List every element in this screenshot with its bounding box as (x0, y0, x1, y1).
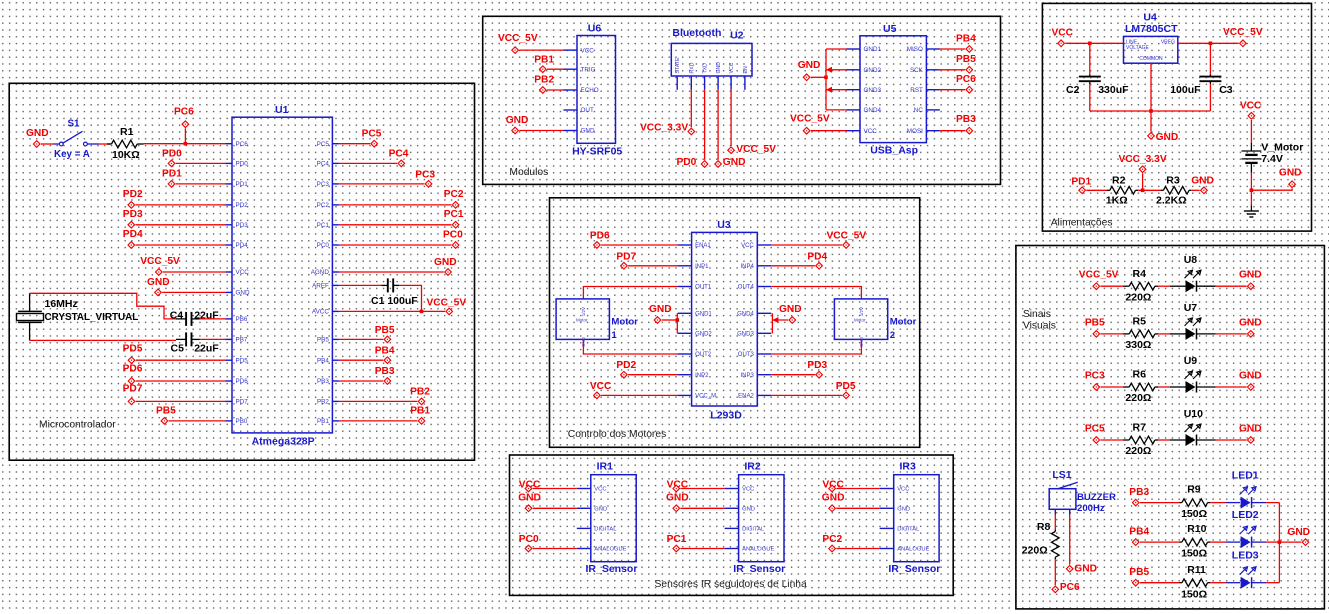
svg-text:2: 2 (890, 330, 895, 341)
svg-text:GND: GND (1279, 168, 1302, 179)
svg-text:PC6: PC6 (956, 74, 976, 85)
svg-text:VCC: VCC (594, 487, 606, 493)
svg-text:GND: GND (666, 492, 689, 503)
node PC3 (LED row U9) (1085, 371, 1105, 391)
wire GND bracket left U3 (662, 313, 679, 333)
svg-text:PB5: PB5 (375, 325, 395, 336)
wire PC0 to IR1 (533, 548, 577, 550)
svg-text:VOLTAGE: VOLTAGE (1126, 45, 1150, 51)
svg-text:IR1: IR1 (597, 460, 614, 472)
node GND (battery -) (1279, 168, 1302, 188)
wire AREF C1 to VCC_5V corner (399, 285, 422, 311)
svg-text:PB5: PB5 (1129, 567, 1149, 578)
svg-text:VCC: VCC (236, 269, 250, 276)
LED LED1 (blue) (1232, 470, 1259, 509)
svg-text:U10: U10 (1184, 408, 1203, 420)
svg-text:VCC_5V: VCC_5V (827, 230, 867, 241)
wire PC6 to U1.PC6 with R1 net (144, 128, 226, 145)
svg-text:PD3: PD3 (807, 360, 827, 371)
svg-text:U1: U1 (275, 104, 289, 116)
svg-text:IR3: IR3 (900, 460, 917, 472)
wire GND AGND to U1 (339, 271, 444, 273)
svg-text:U6: U6 (588, 22, 602, 34)
svg-text:PC0: PC0 (519, 534, 539, 545)
node PB1 (flag) (534, 55, 554, 73)
svg-text:PB1: PB1 (317, 418, 329, 425)
svg-text:Key = A: Key = A (54, 149, 90, 160)
node PC1 (flag) (444, 209, 464, 228)
node GND (U10) (1239, 424, 1262, 444)
svg-text:V_Motor: V_Motor (1261, 141, 1303, 153)
LED LED2 (blue) (1232, 509, 1259, 548)
svg-text:PD3: PD3 (123, 209, 143, 220)
wire PD5 to U1.PD5 (136, 359, 226, 361)
capacitor C3 100uF (1170, 43, 1233, 111)
svg-text:DIGITAL: DIGITAL (594, 527, 617, 533)
svg-text:GND: GND (1239, 424, 1262, 435)
wire R8 to PC6 (1054, 559, 1056, 585)
svg-text:1: 1 (611, 330, 617, 341)
node PD7 (U3.INP1) (616, 251, 636, 269)
motor M1 Motor 1 (556, 299, 638, 347)
svg-text:VCC_5V: VCC_5V (736, 144, 776, 155)
svg-text:PD5: PD5 (123, 344, 143, 355)
svg-text:22uF: 22uF (194, 310, 219, 322)
svg-text:R2: R2 (1112, 175, 1126, 187)
svg-text:AREF: AREF (312, 283, 329, 290)
ground symbol (battery) (1244, 206, 1259, 218)
svg-text:Microcontrolador: Microcontrolador (39, 420, 116, 431)
resistor R4 220Ω (1123, 268, 1158, 304)
svg-text:100uF: 100uF (1170, 84, 1201, 96)
wire VCC to U3.VCC_M (601, 394, 678, 396)
svg-text:MISO: MISO (907, 46, 923, 53)
wire battery- to GND flag (1251, 188, 1292, 190)
svg-text:VCC_5V: VCC_5V (1223, 27, 1263, 38)
wire PD6 to U3.ENA1 (601, 244, 678, 246)
LED U8 (1184, 254, 1201, 292)
svg-text:16MHz: 16MHz (45, 298, 78, 310)
resistor R6 220Ω (1123, 369, 1158, 405)
node PB4 (U5.MISO) (956, 33, 976, 52)
regulator U4 LM7805CT (1124, 11, 1179, 63)
node PB1 (flag) (410, 405, 430, 424)
svg-text:TRIG: TRIG (581, 66, 596, 73)
wire U3.OUT4 to Motor2 (771, 287, 861, 299)
svg-text:PD4: PD4 (807, 251, 827, 262)
svg-text:PC6: PC6 (174, 107, 194, 118)
wire PD1 to R2 (1086, 189, 1107, 191)
node VCC_5V (U4 output) (1223, 27, 1263, 47)
svg-text:USB_Asp: USB_Asp (870, 144, 918, 156)
svg-text:PC5: PC5 (1085, 424, 1105, 435)
svg-text:GND: GND (1239, 270, 1262, 281)
svg-text:150Ω: 150Ω (1181, 508, 1207, 520)
svg-text:PD6: PD6 (123, 364, 143, 375)
svg-text:220Ω: 220Ω (1125, 291, 1151, 303)
wire LED U10 to GND (1197, 439, 1247, 441)
wire battery to ground (1250, 173, 1254, 206)
svg-text:GND: GND (649, 304, 672, 315)
wire PC0 to U1 (339, 244, 452, 246)
svg-text:C1 100uF: C1 100uF (371, 295, 418, 307)
svg-text:PC2: PC2 (444, 189, 464, 200)
node PB5 (U5.SCK) (956, 54, 976, 73)
node PC5 (flag) (362, 129, 382, 148)
node PC2 (flag) (444, 189, 464, 208)
svg-text:1/2V: 1/2V (581, 307, 586, 316)
svg-text:Bluetooth: Bluetooth (672, 27, 721, 39)
buzzer LS1 BUZZER 200Hz (1049, 469, 1116, 515)
capacitor C4 22uF (170, 310, 220, 326)
svg-text:GND3: GND3 (737, 332, 754, 338)
svg-text:VCC: VCC (864, 128, 878, 135)
node PD6 (flag) (123, 364, 143, 385)
node PD1 (flag) (162, 169, 182, 188)
svg-text:GND: GND (1156, 132, 1179, 143)
svg-text:220Ω: 220Ω (1125, 445, 1151, 457)
wire PB3 to R9 (1140, 502, 1180, 504)
svg-text:PC5: PC5 (362, 129, 382, 140)
node PC6 (flag) (174, 107, 194, 128)
svg-text:PC6: PC6 (236, 141, 249, 148)
svg-text:R10: R10 (1187, 523, 1206, 535)
resistor R2 1KOhm (1106, 175, 1138, 207)
wire R9 to LED1 (1210, 502, 1240, 504)
svg-text:Motor: Motor (611, 317, 638, 328)
LED U10 (1184, 408, 1203, 446)
section box Sensores IR (510, 455, 954, 595)
svg-text:ENA2: ENA2 (738, 394, 754, 400)
svg-text:GND: GND (434, 257, 457, 268)
wire GND to U6.GND (519, 130, 563, 132)
svg-text:VCC_5V: VCC_5V (427, 297, 467, 308)
svg-text:R5: R5 (1133, 316, 1147, 328)
svg-text:C3: C3 (1219, 84, 1233, 96)
svg-text:GND: GND (1239, 371, 1262, 382)
svg-text:ECHO: ECHO (581, 87, 599, 94)
wire VCC to IR2 (681, 488, 725, 490)
node VCC (U3.VCC_M) (590, 381, 612, 399)
wire VCC to U4 input (1065, 42, 1123, 46)
svg-text:GND3: GND3 (864, 87, 882, 94)
IR sensor IR2 IR_Sensor (725, 460, 786, 575)
wire LED3 out (1252, 582, 1279, 584)
svg-text:R4: R4 (1133, 268, 1147, 280)
capacitor C1 100uF on AREF (339, 278, 418, 307)
svg-text:GND: GND (1074, 563, 1097, 574)
wire R2-R3 junction to VCC_3.3V (1138, 173, 1161, 192)
node GND (LED rail) (1287, 527, 1310, 546)
wire PD7 to U1.PD7 (136, 400, 226, 402)
svg-text:INP1: INP1 (695, 264, 709, 270)
wire U3.INP4 to PD4 (771, 265, 815, 267)
node PD5 (flag) (123, 344, 143, 364)
svg-text:GND: GND (506, 115, 529, 126)
svg-text:PB7: PB7 (236, 337, 248, 344)
wire PB2 to U1 (339, 400, 417, 402)
svg-text:VCC: VCC (1240, 101, 1262, 112)
svg-text:ANALOGUE: ANALOGUE (742, 547, 774, 553)
svg-text:GND2: GND2 (864, 67, 882, 74)
resistor R10 150Ohm (1180, 523, 1211, 560)
svg-text:PC1: PC1 (317, 222, 330, 229)
wire VCC_5V to R4 (1101, 285, 1124, 287)
svg-text:PC3: PC3 (317, 181, 330, 188)
node PD2 (U3.INP2) (616, 360, 636, 378)
svg-text:PD6: PD6 (590, 230, 610, 241)
svg-text:PD2: PD2 (616, 360, 636, 371)
svg-text:PB5: PB5 (156, 406, 176, 417)
svg-text:INP4: INP4 (740, 264, 754, 270)
node VCC (battery +) (1240, 101, 1262, 120)
resistor R3 2.2KOhm (1156, 175, 1191, 207)
svg-text:PD0: PD0 (162, 149, 182, 160)
svg-text:GND1: GND1 (864, 46, 882, 53)
svg-text:PB0: PB0 (236, 418, 248, 425)
svg-text:PD5: PD5 (836, 381, 856, 392)
svg-text:PB5: PB5 (956, 54, 976, 65)
wire Motor2 to U3.OUT3 (771, 339, 861, 354)
svg-text:Modulos: Modulos (509, 167, 548, 178)
node PD0 (U2.TXD) (677, 157, 708, 168)
node PC0 (flag) (443, 230, 463, 249)
node GND (U3 GND1/GND2) (649, 304, 672, 324)
svg-text:PC0: PC0 (317, 242, 330, 249)
svg-text:LM7805CT: LM7805CT (1125, 23, 1178, 35)
svg-text:GND1: GND1 (695, 312, 712, 318)
node GND (U3 GND4/GND3) (779, 304, 802, 324)
svg-text:GND: GND (518, 492, 541, 503)
wire U2.RXD down (690, 90, 692, 128)
wire PC5 to R7 (1101, 439, 1124, 441)
wire GND to IR2 (681, 507, 725, 509)
svg-text:PB2: PB2 (534, 75, 554, 86)
svg-text:ENA1: ENA1 (695, 243, 711, 249)
wire PB1 to U6.TRIG (547, 68, 564, 70)
svg-text:22uF: 22uF (194, 343, 219, 355)
svg-text:PB4: PB4 (1129, 526, 1149, 537)
switch S1 Key = A (54, 119, 99, 161)
svg-text:GND: GND (742, 507, 755, 513)
wire R10 to LED2 (1210, 541, 1240, 543)
svg-text:PB2: PB2 (410, 387, 430, 398)
svg-text:GND: GND (1191, 176, 1214, 187)
wire PC1 to IR2 (681, 548, 725, 550)
svg-text:VCC_5V: VCC_5V (498, 33, 538, 44)
svg-text:PC3: PC3 (415, 169, 435, 180)
wire R6 to LED U9 (1158, 386, 1186, 388)
wire LS1 left lead to R8 (1054, 515, 1056, 530)
svg-text:220Ω: 220Ω (1022, 545, 1048, 557)
svg-text:VCC: VCC (590, 381, 612, 392)
svg-text:PC5: PC5 (317, 141, 330, 148)
wire PD6 to U1.PD6 (136, 380, 226, 382)
svg-text:Motor: Motor (854, 318, 866, 323)
svg-text:PB3: PB3 (956, 114, 976, 125)
node PB4 (flag) (375, 346, 395, 364)
wire U5.MOSI to PB3 (940, 130, 965, 132)
svg-text:LED3: LED3 (1232, 550, 1259, 562)
svg-text:STATE: STATE (675, 57, 681, 73)
svg-text:PC1: PC1 (667, 534, 687, 545)
svg-text:U9: U9 (1184, 355, 1198, 367)
node PD4 (U3.INP4) (807, 251, 827, 269)
ultrasonic module U6 HY-SRF05 (564, 22, 623, 157)
svg-text:GND: GND (26, 128, 49, 139)
svg-text:GND4: GND4 (737, 312, 754, 318)
svg-text:OUT2: OUT2 (695, 352, 712, 358)
svg-text:INP2: INP2 (695, 373, 709, 379)
wire PC2 to U1 (339, 204, 452, 206)
svg-text:GND: GND (581, 128, 595, 135)
svg-text:GND: GND (1287, 527, 1310, 538)
svg-text:U2: U2 (730, 30, 744, 42)
svg-text:PD1: PD1 (1071, 176, 1091, 187)
wire R5 to LED U7 (1158, 333, 1186, 335)
svg-text:PB4: PB4 (956, 33, 976, 44)
capacitor C5 22uF (171, 332, 220, 354)
capacitor C2 330uF (1066, 43, 1129, 111)
node GND (U9) (1239, 371, 1262, 391)
svg-text:PC2: PC2 (317, 202, 330, 209)
svg-text:MOSI: MOSI (907, 128, 923, 135)
node PB3 (flag) (375, 366, 395, 384)
svg-text:220Ω: 220Ω (1125, 392, 1151, 404)
wire PD2 to U1.PD2 (136, 204, 226, 206)
wire U2.GND down (717, 90, 719, 160)
svg-text:2.2KΩ: 2.2KΩ (1156, 195, 1187, 207)
node PD5 (U3.ENA2) (836, 381, 856, 399)
node GND (U5 GND bus) (798, 60, 821, 80)
svg-text:U7: U7 (1184, 302, 1198, 314)
wire C5 to U1.PB7 (200, 338, 226, 340)
svg-text:VCC: VCC (729, 62, 735, 73)
svg-text:PD0: PD0 (236, 161, 249, 168)
node GND (IR1.GND) (518, 492, 541, 511)
svg-text:PB1: PB1 (534, 55, 554, 66)
node PB3 (U5.MOSI) (956, 114, 976, 134)
svg-text:GND4: GND4 (864, 107, 882, 114)
wire PC1 to U1 (339, 224, 452, 226)
svg-text:GND: GND (236, 290, 250, 297)
svg-text:PB3: PB3 (375, 366, 395, 377)
node VCC (IR1.VCC) (519, 480, 541, 492)
svg-text:PD2: PD2 (123, 189, 143, 200)
wire GND to U1.GND (162, 291, 225, 293)
svg-text:150Ω: 150Ω (1181, 548, 1207, 560)
svg-text:CRYSTAL_VIRTUAL: CRYSTAL_VIRTUAL (45, 312, 139, 323)
node VCC (IR2.VCC) (667, 480, 689, 492)
svg-text:GND: GND (723, 157, 746, 168)
node GND (R3) (1191, 176, 1214, 194)
svg-text:VCC_M: VCC_M (695, 394, 716, 400)
node PD6 (U3.ENA1) (590, 230, 610, 248)
svg-text:S1: S1 (68, 119, 81, 130)
node PD4 (flag) (123, 229, 143, 248)
svg-text:VCC: VCC (897, 487, 909, 493)
section box Alimentacoes (1042, 3, 1311, 231)
wire C4 to U1.PB6 (200, 318, 226, 320)
wire VCC_5V to U6.VCC (519, 49, 563, 51)
node GND (U1.GND) (147, 277, 170, 296)
IR sensor IR1 IR_Sensor (577, 460, 638, 575)
IR sensor IR3 IR_Sensor (880, 460, 941, 575)
node VCC_5V (U2.VCC) (728, 144, 776, 155)
svg-text:OUT: OUT (581, 107, 594, 114)
svg-text:LED2: LED2 (1232, 509, 1259, 521)
svg-text:PD1: PD1 (162, 169, 182, 180)
svg-text:VCC_5V: VCC_5V (790, 114, 830, 125)
svg-text:PB4: PB4 (375, 346, 395, 357)
svg-text:PB5: PB5 (1085, 317, 1105, 328)
node PD0 (flag) (162, 149, 182, 167)
svg-text:150Ω: 150Ω (1181, 588, 1207, 600)
svg-text:PC6: PC6 (1060, 582, 1080, 593)
wire U5.RST to PC6 (940, 89, 965, 91)
wire R3 to GND (1191, 189, 1200, 191)
wire U2.VCC down (730, 90, 732, 146)
resistor R1 10KOhm (107, 126, 144, 161)
wire rail to GND flag (1279, 541, 1301, 543)
wire U2.TXD down (704, 90, 706, 160)
node PC1 (IR2.ANALOGUE) (667, 534, 687, 552)
svg-text:VCC: VCC (742, 487, 754, 493)
wire PB1 to U1 (339, 420, 417, 422)
node PC4 (flag) (389, 149, 409, 167)
svg-text:PB6: PB6 (236, 316, 248, 323)
svg-text:VREG: VREG (1161, 40, 1175, 46)
wire GND to S1 (41, 143, 59, 145)
wire Motor1 to U3.OUT2 (583, 339, 677, 354)
wire AVCC to VCC_5V (339, 310, 445, 314)
section box Sinais Visuais (1016, 246, 1325, 609)
svg-text:OUT3: OUT3 (738, 352, 755, 358)
svg-text:R6: R6 (1133, 369, 1147, 381)
svg-text:1/2V: 1/2V (859, 307, 864, 316)
svg-text:PD7: PD7 (236, 399, 249, 406)
wire PC3 to R6 (1101, 386, 1124, 388)
wire VCC_5V to U5.VCC (811, 130, 847, 132)
svg-text:PD2: PD2 (236, 202, 249, 209)
wire U3.VCC to VCC_5V (771, 244, 842, 246)
wire LS1 right lead to GND (1069, 515, 1071, 565)
programmer U5 USB_Asp (847, 23, 940, 156)
wire U4.COMMON down to GND (1150, 63, 1152, 132)
svg-text:R8: R8 (1037, 521, 1051, 533)
node VCC (IR3.VCC) (822, 480, 844, 492)
node GND (U2.GND) (715, 157, 746, 168)
node GND (U6.GND) (506, 115, 529, 134)
node PB2 (flag) (534, 75, 554, 94)
node PD3 (U3.INP3) (807, 360, 827, 378)
wire R7 to LED U10 (1158, 439, 1186, 441)
svg-text:7.4V: 7.4V (1261, 153, 1283, 165)
svg-text:IR_Sensor: IR_Sensor (888, 563, 940, 575)
wire LED1 out (1252, 502, 1279, 504)
wire PC3 to U1 (339, 183, 424, 185)
svg-text:VCC_3.3V: VCC_3.3V (640, 123, 688, 134)
svg-text:C2: C2 (1066, 84, 1080, 96)
wire VCC to IR3 (836, 488, 879, 490)
wire LED common rail (1278, 503, 1282, 583)
svg-text:U5: U5 (883, 23, 897, 35)
node PC6 (U5.RST) (956, 74, 976, 93)
svg-text:DIGITAL: DIGITAL (742, 527, 765, 533)
svg-text:SCK: SCK (910, 67, 924, 74)
bluetooth module U2 (671, 27, 752, 90)
node PB4 (LED2) (1129, 526, 1149, 545)
